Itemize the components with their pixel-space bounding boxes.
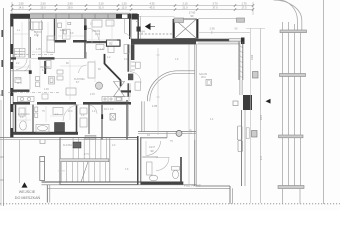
svg-text:2.10: 2.10 bbox=[182, 2, 188, 6]
svg-text:3.05: 3.05 bbox=[190, 129, 193, 134]
svg-text:2.4: 2.4 bbox=[259, 156, 263, 160]
svg-text:16.2: 16.2 bbox=[34, 34, 39, 37]
svg-text:DO MIESZKAŃ: DO MIESZKAŃ bbox=[15, 196, 41, 200]
svg-text:28.6: 28.6 bbox=[201, 76, 206, 79]
svg-text:WEJŚCIE: WEJŚCIE bbox=[19, 189, 36, 194]
svg-text:2.98: 2.98 bbox=[209, 27, 215, 31]
svg-text:KLATKA: KLATKA bbox=[63, 144, 72, 147]
svg-text:2.90: 2.90 bbox=[67, 2, 73, 6]
svg-text:1.20: 1.20 bbox=[121, 2, 127, 6]
svg-text:43.5: 43.5 bbox=[149, 6, 155, 10]
svg-text:25.0: 25.0 bbox=[40, 6, 46, 10]
svg-text:3.64: 3.64 bbox=[250, 54, 254, 60]
svg-text:37.0: 37.0 bbox=[212, 6, 218, 10]
svg-text:31.0: 31.0 bbox=[98, 6, 104, 10]
svg-text:17.5: 17.5 bbox=[84, 153, 89, 156]
svg-text:1.55: 1.55 bbox=[18, 2, 24, 6]
svg-text:4.35: 4.35 bbox=[149, 2, 155, 6]
svg-text:3.70: 3.70 bbox=[212, 2, 218, 6]
svg-text:2.50: 2.50 bbox=[40, 2, 46, 6]
svg-text:1.45: 1.45 bbox=[44, 88, 49, 91]
svg-text:2.15: 2.15 bbox=[90, 93, 95, 96]
svg-text:POS. PRZYZ.: POS. PRZYZ. bbox=[184, 184, 202, 188]
svg-text:12.0: 12.0 bbox=[121, 6, 127, 10]
svg-text:1.75: 1.75 bbox=[241, 2, 247, 6]
svg-text:15/17: 15/17 bbox=[149, 146, 156, 149]
svg-text:29.0: 29.0 bbox=[67, 6, 73, 10]
svg-text:SYP: SYP bbox=[16, 78, 21, 81]
svg-text:17.5: 17.5 bbox=[241, 6, 247, 10]
svg-text:1.05: 1.05 bbox=[152, 104, 158, 108]
svg-text:43.1: 43.1 bbox=[104, 108, 109, 111]
svg-text:12.8: 12.8 bbox=[95, 33, 100, 36]
svg-text:ŁAZ: ŁAZ bbox=[60, 29, 65, 32]
svg-text:14.5: 14.5 bbox=[18, 6, 24, 10]
svg-text:21.0: 21.0 bbox=[182, 6, 188, 10]
svg-text:3.10: 3.10 bbox=[98, 2, 104, 6]
svg-text:1.05: 1.05 bbox=[36, 48, 41, 51]
svg-text:11.4: 11.4 bbox=[17, 82, 22, 85]
svg-text:24.5: 24.5 bbox=[259, 114, 263, 120]
svg-text:W.C.: W.C. bbox=[68, 110, 74, 113]
svg-text:O2: O2 bbox=[109, 42, 113, 46]
